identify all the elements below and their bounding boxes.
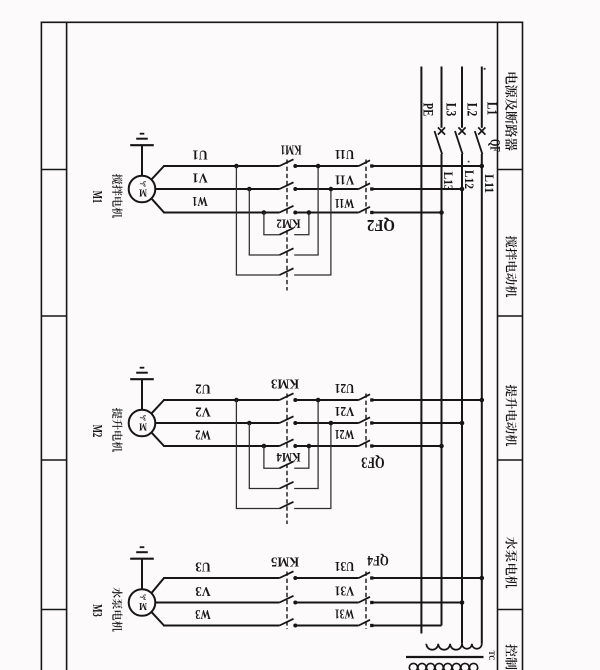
wire L3 upper segment (441, 67, 443, 128)
breaker QF3 pole blade at y=400.0 (359, 394, 370, 400)
ground bar middle (136, 551, 148, 553)
contactor KM1 pole fixed terminal (293, 211, 297, 215)
wire V21 segment (295, 422, 358, 424)
svg-text:V11: V11 (335, 172, 355, 187)
wire: motor bottom diagonal lead (151, 612, 164, 626)
breaker QF2 pole blade at y=212.5 (359, 207, 370, 213)
wire W2 segment motor side (163, 445, 279, 447)
wire KM4 pole 3 left horizontal (236, 508, 280, 510)
contactor KM5 pole fixed terminal (293, 601, 297, 605)
svg-text:V1: V1 (192, 170, 208, 185)
svg-text:W2: W2 (195, 427, 211, 442)
svg-text:U31: U31 (335, 558, 355, 573)
svg-text:KM3: KM3 (271, 377, 299, 392)
contactor KM2 linkage dashed line (286, 230, 288, 290)
breaker QF3 pole blade at y=446.0 (359, 440, 370, 446)
wire U3 segment motor side (163, 577, 279, 579)
transformer TC secondary winding (clipped at sheet edge) (409, 663, 417, 670)
wire V11 segment (295, 188, 358, 190)
wire: motor top diagonal lead (151, 166, 164, 180)
column title 提升电动机 (505, 385, 517, 446)
wire V3 segment motor side (163, 602, 279, 604)
contactor KM5 pole fixed terminal (293, 576, 297, 580)
breaker QF pole on L3: blade (435, 131, 443, 154)
wire KM2 pole 1 left horizontal (263, 234, 279, 236)
wire KM2 pole 1 left vertical (263, 213, 265, 235)
left column divider 2 (41, 315, 66, 317)
motor M1 circle (129, 176, 156, 203)
wire KM4 pole 1 left horizontal (263, 467, 279, 469)
wire W21 segment (295, 445, 358, 447)
svg-text:U1: U1 (192, 147, 208, 162)
wire KM4 pole 2 right horizontal (294, 488, 319, 490)
ground bar short (140, 367, 145, 369)
junction dot: left tap of KM4 pole 3 (234, 398, 239, 403)
junction on L12 (460, 187, 465, 192)
contactor KM1 linkage dashed line (286, 160, 288, 217)
ground symbol (PE) above motor M1: stem (141, 146, 143, 176)
svg-text:L2: L2 (464, 103, 480, 117)
breaker QF pole on L1: blade (475, 131, 483, 154)
wire: motor middle lead (155, 602, 164, 604)
motor name label 搅拌电机 (112, 174, 122, 218)
wire KM2 pole 1 right horizontal (294, 234, 309, 236)
right title column inner line (497, 22, 499, 670)
left column divider 4 (41, 609, 66, 611)
wire W11 segment (295, 212, 358, 214)
svg-text:W1: W1 (192, 193, 208, 208)
contactor KM2 pole 2 blade (280, 248, 294, 255)
ground bar long (130, 144, 154, 146)
transformer TC core line (406, 656, 484, 658)
wire V1 segment motor side (163, 188, 279, 190)
svg-text:QF2: QF2 (367, 216, 395, 235)
junction dot: left tap of KM4 pole 1 (262, 444, 267, 449)
wire L1 upper segment (481, 67, 483, 128)
speck near L1 top (484, 68, 486, 70)
wire: motor middle lead (155, 422, 164, 424)
breaker QF4 linkage dashed line (365, 572, 367, 630)
junction on L11 (480, 398, 485, 403)
wire from QF4 to bus L11 (372, 577, 482, 579)
contactor KM5 pole blade at y=602.5 (280, 596, 294, 603)
svg-text:V21: V21 (335, 403, 355, 418)
breaker QF pole on L2: fixed-contact X mark (458, 127, 465, 134)
junction dot: left tap of KM2 pole 1 (262, 210, 267, 215)
junction dot: right tap of KM4 pole 2 (316, 398, 321, 403)
contactor KM5 pole blade at y=625.5 (280, 619, 294, 626)
junction dot: right tap of KM4 pole 3 (329, 421, 334, 426)
svg-text:KM1: KM1 (280, 143, 301, 158)
svg-text:3~: 3~ (139, 413, 146, 422)
contactor KM4 pole 2 blade (280, 482, 294, 489)
column title 水泵电机 (505, 537, 517, 588)
contactor KM3 pole fixed terminal (293, 444, 297, 448)
bus L12 vertical (461, 154, 463, 644)
wire KM2 pole 2 left vertical (248, 189, 250, 255)
svg-text:KM4: KM4 (276, 450, 300, 465)
wire W1 segment motor side (163, 212, 279, 214)
svg-text:L12: L12 (462, 170, 477, 189)
ground bar long (130, 378, 154, 380)
breaker QF4 pole terminal square (370, 624, 373, 627)
svg-text:U2: U2 (195, 381, 211, 396)
wire: motor bottom diagonal lead (151, 198, 164, 212)
svg-text:3~: 3~ (139, 179, 146, 188)
breaker QF3 linkage dashed line (365, 394, 367, 450)
wire U11 segment (295, 165, 358, 167)
breaker QF3 pole terminal square (370, 444, 373, 447)
ground symbol (PE) above motor M2: stem (141, 380, 143, 410)
svg-text:L1: L1 (484, 102, 500, 116)
ground symbol (PE) above motor M3: stem (141, 559, 143, 589)
svg-text:U21: U21 (335, 380, 355, 395)
junction dot: left tap of KM2 pole 2 (247, 187, 252, 192)
contactor KM4 pole 3 blade (280, 502, 294, 509)
contactor KM2 pole 1 blade (280, 228, 294, 235)
svg-text:M3: M3 (89, 604, 104, 617)
speck near wire U11 (468, 161, 470, 163)
wire KM4 pole 3 right vertical (330, 423, 332, 509)
contactor KM2 pole 3 blade (280, 268, 294, 275)
junction dot: right tap of KM4 pole 1 (307, 444, 312, 449)
wire KM2 pole 3 left vertical (235, 166, 237, 275)
wire KM2 pole 2 left horizontal (249, 254, 280, 256)
left title column inner line (66, 22, 68, 670)
contactor KM4 pole 1 blade (280, 462, 294, 469)
wire V2 segment motor side (163, 422, 279, 424)
svg-text:M1: M1 (89, 191, 104, 204)
svg-text:V31: V31 (335, 583, 355, 598)
contactor KM5 linkage dashed line (286, 572, 288, 630)
wire: motor middle lead (155, 188, 164, 190)
wire PE supply line (420, 67, 422, 634)
ground bar short (140, 546, 145, 548)
wire KM4 pole 2 right vertical (317, 400, 319, 489)
contactor KM3 pole fixed terminal (293, 421, 297, 425)
contactor KM3 pole blade at y=400.0 (280, 393, 294, 400)
junction on L12 (460, 600, 465, 605)
svg-text:L3: L3 (443, 103, 459, 117)
wire: motor bottom diagonal lead (151, 432, 164, 446)
breaker QF pole on L3: fixed-contact X mark (438, 127, 445, 134)
wire U31 segment (295, 577, 358, 579)
svg-text:KM5: KM5 (271, 555, 299, 570)
right column divider 1 (498, 169, 523, 171)
svg-text:M2: M2 (89, 425, 104, 438)
wire U1 segment motor side (163, 165, 279, 167)
breaker QF2 linkage dashed line (365, 160, 367, 217)
wire KM2 pole 3 left horizontal (236, 274, 280, 276)
wire KM4 pole 1 right horizontal (294, 467, 309, 469)
right title column outer line (522, 22, 524, 670)
junction dot: left tap of KM4 pole 2 (247, 421, 252, 426)
svg-text:U3: U3 (195, 559, 211, 574)
junction dot: left tap of KM2 pole 3 (234, 164, 239, 169)
junction dot: right tap of KM2 pole 3 (329, 187, 334, 192)
contactor KM1 pole blade at y=212.5 (280, 206, 294, 213)
wire from QF2 to bus L13 (372, 212, 442, 214)
left title column outer line (40, 22, 42, 670)
ground bar long (130, 558, 154, 560)
wire L2 upper segment (461, 67, 463, 128)
junction dot: right tap of KM2 pole 1 (307, 210, 312, 215)
wire U21 segment (295, 399, 358, 401)
wire: motor top diagonal lead (151, 578, 164, 593)
svg-text:PE: PE (420, 103, 436, 117)
right column divider 3 (498, 459, 523, 461)
svg-text:3~: 3~ (139, 593, 146, 602)
contactor KM3 linkage dashed line (286, 394, 288, 450)
breaker QF3 pole terminal square (370, 421, 373, 424)
wire U2 segment motor side (163, 399, 279, 401)
svg-text:V3: V3 (195, 583, 211, 598)
svg-text:W31: W31 (335, 606, 355, 621)
contactor KM5 pole fixed terminal (293, 624, 297, 628)
breaker QF3 pole blade at y=423.0 (359, 417, 370, 423)
breaker QF4 pole blade at y=602.5 (359, 597, 370, 603)
ground bar middle (136, 372, 148, 374)
left column divider 1 (41, 169, 66, 171)
wire KM4 pole 2 left vertical (248, 423, 250, 489)
wire W3 segment motor side (163, 625, 279, 627)
contactor KM3 pole blade at y=446.0 (280, 439, 294, 446)
junction on L12 (460, 421, 465, 426)
breaker QF pole on L1: fixed-contact X mark (478, 127, 485, 134)
svg-text:W11: W11 (335, 195, 355, 210)
svg-text:QF: QF (487, 139, 503, 152)
breaker QF2 pole terminal square (370, 211, 373, 214)
ground bar middle (136, 138, 148, 140)
wire from QF4 to bus L12 (372, 602, 462, 604)
transformer TC primary winding (426, 644, 481, 650)
wire from QF2 to bus L12 (372, 188, 462, 190)
right column divider 2 (498, 315, 523, 317)
wire from QF3 to bus L12 (372, 422, 462, 424)
wire V31 segment (295, 602, 358, 604)
svg-text:KM2: KM2 (277, 217, 301, 232)
right column divider 4 (498, 609, 523, 611)
motor M3 circle (129, 589, 156, 616)
wire KM2 pole 2 right vertical (317, 166, 319, 255)
left column divider 3 (41, 459, 66, 461)
contactor KM1 pole fixed terminal (293, 164, 297, 168)
junction on L13 (439, 210, 444, 215)
junction on L13 (439, 444, 444, 449)
wire W31 segment (295, 625, 358, 627)
breaker QF2 pole terminal square (370, 187, 373, 190)
bus L11 vertical (481, 154, 483, 644)
wire from QF4 to bus L13 (372, 625, 442, 627)
contactor KM4 linkage dashed line (286, 464, 288, 524)
motor M2 circle (129, 410, 156, 437)
wire KM4 pole 3 right horizontal (294, 508, 331, 510)
wire from QF2 to bus L11 (372, 165, 482, 167)
wire KM4 pole 3 left vertical (235, 400, 237, 509)
breaker QF4 pole terminal square (370, 601, 373, 604)
svg-text:TC: TC (487, 651, 496, 661)
junction dot: right tap of KM2 pole 2 (316, 164, 321, 169)
svg-text:QF3: QF3 (361, 454, 385, 471)
wire KM2 pole 3 right vertical (330, 189, 332, 275)
column title 搅拌电动机 (505, 236, 517, 297)
wire KM2 pole 2 right horizontal (294, 254, 319, 256)
column title 控制变压器 (clipped at sheet edge) (505, 644, 517, 670)
breaker QF4 pole terminal square (370, 576, 373, 579)
wire KM2 pole 3 right horizontal (294, 274, 331, 276)
wire from QF3 to bus L13 (372, 445, 442, 447)
svg-text:L11: L11 (482, 174, 497, 193)
motor name label 水泵电机 (112, 587, 122, 631)
contactor KM3 pole fixed terminal (293, 398, 297, 402)
contactor KM5 pole blade at y=578.0 (280, 571, 294, 578)
contactor KM1 pole fixed terminal (293, 187, 297, 191)
breaker QF pole on L2: blade (455, 131, 463, 154)
junction on L11 (480, 164, 485, 169)
breaker QF2 pole terminal square (370, 164, 373, 167)
wire from QF3 to bus L11 (372, 399, 482, 401)
svg-text:QF4: QF4 (367, 552, 389, 568)
breaker QF3 pole terminal square (370, 398, 373, 401)
svg-text:W21: W21 (335, 426, 355, 441)
contactor KM3 pole blade at y=423.0 (280, 416, 294, 423)
contactor KM1 pole blade at y=166.0 (280, 159, 294, 166)
wire KM4 pole 2 left horizontal (249, 488, 280, 490)
wire KM4 pole 1 right vertical (308, 446, 310, 468)
svg-text:V2: V2 (195, 404, 211, 419)
wire: motor top diagonal lead (151, 400, 164, 414)
breaker QF2 pole blade at y=166.0 (359, 160, 370, 166)
breaker QF4 pole blade at y=625.5 (359, 620, 370, 626)
svg-text:W3: W3 (195, 606, 211, 621)
wire KM2 pole 1 right vertical (308, 213, 310, 235)
motor name label 提升电机 (112, 408, 122, 452)
drawing frame top border (41, 21, 522, 23)
column title 电源及断路器 (505, 73, 517, 151)
contactor KM1 pole blade at y=189.0 (280, 182, 294, 189)
svg-text:U11: U11 (335, 146, 355, 161)
wire KM4 pole 1 left vertical (263, 446, 265, 468)
junction on L11 (480, 576, 485, 581)
bus L13 vertical (441, 154, 443, 626)
breaker QF2 pole blade at y=189.0 (359, 183, 370, 189)
breaker QF4 pole blade at y=578.0 (359, 572, 370, 578)
ground bar short (140, 133, 145, 135)
